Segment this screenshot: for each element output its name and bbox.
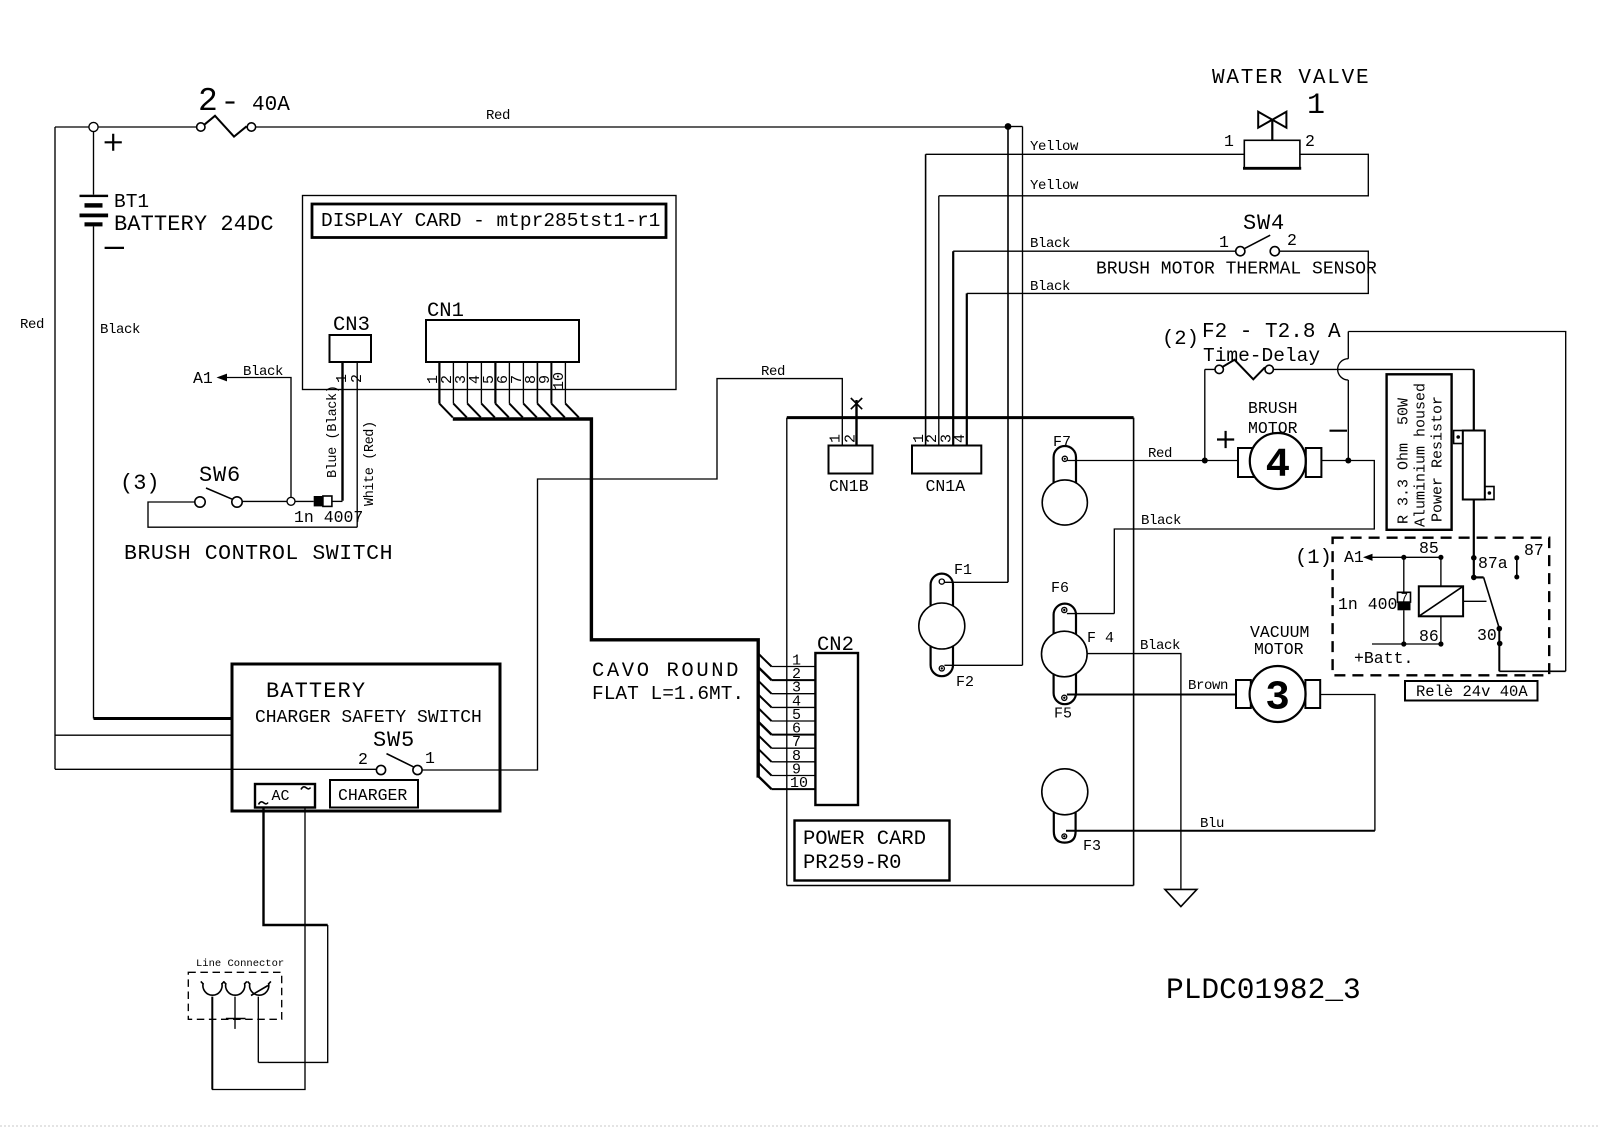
svg-text:Yellow: Yellow (1030, 139, 1079, 155)
wire F1 (944, 581, 1008, 583)
svg-text:F5: F5 (1054, 706, 1072, 723)
display card title box (312, 204, 666, 238)
brush motor 4 (1217, 399, 1347, 489)
node (1345, 458, 1351, 464)
svg-text:1: 1 (1224, 132, 1234, 151)
wire SW5 pin2 (55, 768, 376, 770)
wire resistor top (1473, 369, 1475, 430)
svg-text:CAVO ROUND: CAVO ROUND (592, 660, 741, 683)
svg-text:F7: F7 (1053, 434, 1071, 451)
svg-text:2: 2 (1305, 132, 1315, 151)
svg-text:Black: Black (100, 322, 140, 338)
wire F5 Brown (1067, 694, 1236, 696)
diode 1n 4007 (314, 496, 323, 506)
svg-text:Red: Red (1148, 446, 1172, 462)
svg-text:F 4: F 4 (1087, 630, 1114, 647)
svg-text:Relè 24v 40A: Relè 24v 40A (1416, 683, 1528, 701)
wire (242, 500, 287, 502)
svg-text:F2 - T2.8 A: F2 - T2.8 A (1202, 321, 1341, 344)
wire +Batt / 86 (1372, 643, 1441, 645)
svg-text:DISPLAY CARD - mtpr285tst1-r1: DISPLAY CARD - mtpr285tst1-r1 (321, 210, 660, 232)
svg-text:Black: Black (1141, 513, 1181, 529)
svg-text:CHARGER: CHARGER (338, 786, 407, 805)
svg-text:Line Connector: Line Connector (196, 958, 284, 970)
svg-text:CN3: CN3 (333, 314, 370, 337)
svg-text:Aluminium housed: Aluminium housed (1413, 383, 1430, 527)
svg-text:SW5: SW5 (373, 728, 415, 753)
fuse F7 (1042, 434, 1087, 525)
svg-text:(2): (2) (1162, 328, 1199, 351)
wire (258, 925, 327, 1062)
wire diode (1403, 557, 1405, 644)
wire to F1 (1007, 127, 1009, 583)
svg-text:MOTOR: MOTOR (1254, 640, 1304, 659)
svg-text:3: 3 (1265, 676, 1290, 722)
connector CN1B (829, 446, 873, 474)
wire (295, 500, 314, 502)
svg-text:Red: Red (486, 108, 510, 124)
svg-text:1: 1 (425, 749, 435, 768)
wire Black 1 (953, 250, 1236, 252)
wire (1347, 332, 1349, 461)
svg-text:Red: Red (761, 364, 785, 380)
svg-text:BATTERY: BATTERY (266, 679, 366, 704)
node (1202, 458, 1208, 464)
svg-text:40A: 40A (252, 94, 290, 117)
svg-text:White (Red): White (Red) (363, 421, 378, 506)
relay contact 87 (1516, 558, 1518, 577)
power card label PR259-R0 (795, 821, 950, 881)
wire (332, 500, 343, 502)
power resistor R (1454, 431, 1494, 500)
wire Red top bus (256, 126, 1008, 128)
svg-text:F3: F3 (1083, 838, 1101, 855)
fuse F2 time-delay (1162, 321, 1341, 379)
cable bus CAVO ROUND FLAT (453, 419, 758, 778)
svg-text:87: 87 (1524, 541, 1544, 560)
svg-text:F6: F6 (1051, 580, 1069, 597)
wire SW5 pin1 to CN1B red (422, 379, 842, 770)
relay contact 87a (1471, 555, 1477, 561)
svg-text:PR259-R0: PR259-R0 (803, 852, 901, 875)
svg-text:WATER VALVE: WATER VALVE (1212, 67, 1370, 90)
node junction ring (287, 497, 295, 505)
svg-text:BT1: BT1 (114, 191, 149, 213)
battery BT1 (80, 132, 274, 719)
svg-text:1: 1 (1307, 89, 1325, 123)
svg-text:POWER CARD: POWER CARD (803, 828, 926, 851)
svg-text:BATTERY 24DC: BATTERY 24DC (114, 212, 274, 237)
wire F4 Black to ground (1087, 654, 1181, 889)
wire Red F7 to brush motor (1067, 460, 1238, 462)
svg-text:2: 2 (1287, 231, 1297, 250)
resistor R 3.3 Ohm label box (1387, 374, 1452, 530)
battery charger box (232, 664, 500, 811)
water valve 1 (1212, 67, 1370, 168)
svg-text:SW4: SW4 (1243, 211, 1285, 236)
svg-text:CHARGER SAFETY SWITCH: CHARGER SAFETY SWITCH (255, 708, 482, 728)
ground (1165, 889, 1197, 906)
svg-text:1n 4007: 1n 4007 (294, 508, 363, 527)
wire Blu (1066, 830, 1375, 832)
connector CN1A (912, 446, 981, 474)
wire red left rail (54, 127, 56, 769)
line connector pin 3 (250, 983, 269, 995)
svg-text:Black: Black (1030, 236, 1070, 252)
svg-text:F1: F1 (954, 562, 972, 579)
svg-text:Red: Red (20, 317, 44, 333)
wire top link to relay 30 (1348, 332, 1565, 672)
line connector pin 1 (203, 983, 222, 995)
node junction (1005, 123, 1012, 130)
svg-text:4: 4 (1265, 443, 1290, 489)
svg-text:(1): (1) (1295, 547, 1332, 570)
wire Yellow 2 (939, 154, 1369, 196)
line connector pin 2 (earth) (226, 983, 245, 995)
svg-text:Power Resistor: Power Resistor (1430, 396, 1447, 522)
svg-text:BRUSH: BRUSH (1248, 399, 1298, 418)
svg-text:Blu: Blu (1200, 816, 1224, 832)
svg-text:86: 86 (1419, 627, 1439, 646)
svg-text:PLDC01982_3: PLDC01982_3 (1166, 973, 1361, 1007)
node battery positive (89, 122, 98, 131)
wire AC left bold (264, 808, 328, 926)
fuse F6 F4 F5 (1042, 580, 1115, 723)
connector CHARGER (330, 780, 418, 808)
fuse F3 (1042, 769, 1101, 855)
fuse 2 - 40A (197, 83, 291, 137)
svg-text:1: 1 (1219, 233, 1229, 252)
wire AC right (212, 808, 305, 1090)
wire Yellow 1 (926, 153, 1245, 155)
wire fuse output to resistor (1274, 368, 1474, 370)
svg-text:Brown: Brown (1188, 678, 1228, 694)
wire coil common (1463, 600, 1486, 602)
svg-text:CN1B: CN1B (829, 477, 869, 496)
svg-text:87a: 87a (1478, 554, 1508, 573)
vacuum motor 3 (1236, 623, 1320, 722)
svg-text:(3): (3) (120, 471, 160, 496)
svg-text:BRUSH MOTOR THERMAL SENSOR: BRUSH MOTOR THERMAL SENSOR (1096, 260, 1377, 280)
switch SW4 (1219, 211, 1297, 256)
wire Black 2 (967, 251, 1369, 293)
svg-text:AC: AC (272, 788, 290, 805)
wire brush motor negative (1114, 461, 1374, 614)
wire (55, 734, 232, 736)
wire SW6 loop (148, 502, 357, 527)
svg-text:1n 400: 1n 400 (1338, 595, 1397, 614)
connector AC (255, 784, 315, 808)
wire (55, 126, 89, 128)
wire (1008, 126, 1023, 128)
relay label box (1405, 681, 1538, 701)
svg-text:A1: A1 (193, 369, 213, 388)
page footer rule (0, 1125, 1600, 1127)
wire A1 to SW6 (226, 378, 291, 498)
svg-text:+Batt.: +Batt. (1354, 649, 1413, 668)
wire to F2 (1022, 127, 1024, 666)
wire battery negative thick (94, 717, 233, 720)
svg-text:30: 30 (1477, 626, 1497, 645)
switch SW6 (120, 463, 242, 507)
svg-text:BRUSH CONTROL SWITCH: BRUSH CONTROL SWITCH (124, 542, 393, 566)
relay lever (1474, 576, 1484, 578)
svg-text:Blue (Black): Blue (Black) (326, 386, 341, 478)
wire A1 to 85 (1372, 556, 1441, 558)
wire hop (1338, 359, 1349, 380)
svg-text:85: 85 (1419, 539, 1439, 558)
svg-text:Black: Black (1030, 279, 1070, 295)
svg-text:F2: F2 (956, 674, 974, 691)
svg-text:Yellow: Yellow (1030, 178, 1079, 194)
switch SW5 (358, 728, 435, 775)
svg-text:SW6: SW6 (199, 463, 241, 488)
fuse F1 F2 (919, 562, 974, 691)
wire (98, 126, 196, 128)
wire F6 (1067, 613, 1114, 615)
svg-text:2: 2 (198, 83, 218, 120)
svg-text:2: 2 (358, 750, 368, 769)
wire resistor bottom to 87a (1473, 500, 1475, 578)
svg-text:Black: Black (1140, 638, 1180, 654)
wire fuse input (1205, 369, 1215, 460)
svg-text:CN1A: CN1A (926, 477, 966, 496)
line connector (188, 958, 284, 1019)
relay U-REL dashed box (1333, 538, 1550, 676)
svg-text:A1: A1 (1344, 548, 1364, 567)
power card box (787, 416, 1134, 419)
wire vacuum motor return (1320, 695, 1375, 831)
relay coil (1419, 586, 1463, 616)
svg-text:FLAT L=1.6MT.: FLAT L=1.6MT. (592, 683, 744, 705)
svg-text:Time-Delay: Time-Delay (1203, 345, 1320, 367)
wire F2 (944, 664, 1022, 666)
svg-text:R 3.3 Ohm 50W: R 3.3 Ohm 50W (1396, 398, 1413, 524)
display card U-DISP outline (303, 196, 677, 390)
relay pin 30 (1497, 626, 1503, 632)
wire pin 30 out (1499, 670, 1565, 672)
